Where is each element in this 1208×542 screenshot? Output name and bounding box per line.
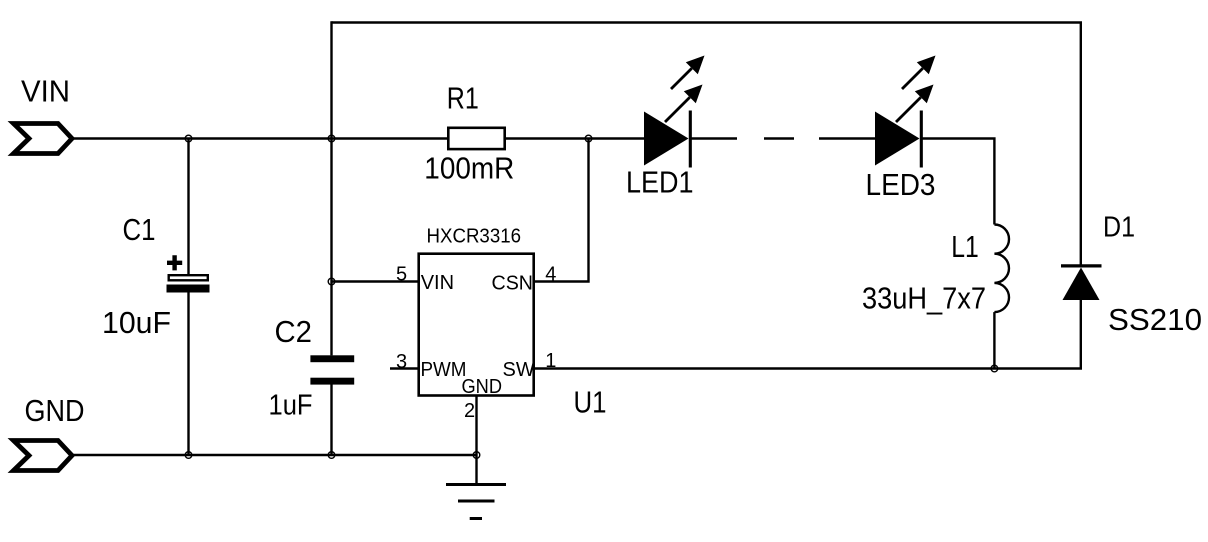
wire SW rail [535,300,1081,369]
wire pin3 stub [390,367,418,369]
junction CSN tap [585,135,592,142]
wire dash segment [764,137,794,139]
junction GND-pin2 [473,452,480,459]
wire LED1 to dash [690,137,737,139]
wire R1 to LED1 [506,137,645,139]
wire pin5 VIN [332,280,419,282]
svg-text:VIN: VIN [21,74,70,109]
junction GND-C2 [328,452,335,459]
wire LED3 to L1 [921,139,994,225]
wire C1 upper [187,139,189,275]
svg-text:C1: C1 [123,212,156,247]
svg-text:VIN: VIN [421,272,454,294]
svg-text:10uF: 10uF [102,305,171,340]
wire top rail [332,23,1081,266]
wire GND rail [72,454,477,456]
svg-text:R1: R1 [447,80,479,115]
svg-text:LED1: LED1 [626,165,694,200]
svg-text:3: 3 [396,351,407,373]
port GND [14,441,73,471]
svg-text:U1: U1 [574,385,607,420]
svg-text:GND: GND [25,393,85,428]
LED1 [644,56,705,168]
junction pin5 [328,278,335,285]
wire pin4 CSN [535,139,589,282]
svg-text:100mR: 100mR [424,150,514,185]
svg-text:LED3: LED3 [866,167,936,202]
LED3 [875,56,936,168]
svg-text:SW: SW [503,359,535,381]
svg-text:PWM: PWM [421,359,467,381]
junction L1-SW [991,365,998,372]
svg-text:1uF: 1uF [269,389,313,421]
capacitor C1 [167,255,210,292]
inductor L1 [994,225,1009,313]
svg-text:L1: L1 [951,229,979,264]
svg-text:D1: D1 [1103,212,1135,244]
ground [446,485,506,519]
wire L1 bottom [993,312,995,368]
diode D1 [1061,266,1102,300]
svg-text:4: 4 [545,264,556,286]
junction GND-C1 [185,452,192,459]
svg-text:1: 1 [545,350,556,372]
svg-text:GND: GND [462,376,503,398]
svg-text:SS210: SS210 [1108,302,1202,337]
svg-text:CSN: CSN [492,273,534,295]
capacitor C2 [310,355,354,384]
wire vertical bus upper [330,21,332,355]
svg-text:C2: C2 [275,314,313,349]
junction VIN-C1 [185,135,192,142]
wire dash to LED3 [819,137,877,139]
svg-text:33uH_7x7: 33uH_7x7 [862,280,986,315]
junction VIN-bus [328,135,335,142]
port VIN [14,124,73,154]
svg-text:5: 5 [396,263,407,285]
wire C1 lower [187,293,189,456]
wire VIN rail [72,137,447,139]
op-amp U1 box HXCR3316 [419,254,534,396]
svg-text:2: 2 [464,400,475,422]
resistor R1 [448,128,504,149]
wire pin2 GND [475,397,477,485]
svg-text:HXCR3316: HXCR3316 [427,226,522,248]
wire vertical bus lower [330,385,332,456]
